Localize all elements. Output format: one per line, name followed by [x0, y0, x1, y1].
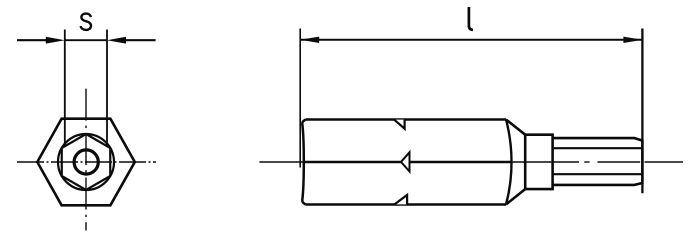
neck circle (tip shank) [74, 150, 98, 174]
body middle hex edge line [304, 161, 511, 163]
dimension s: left tail with arrow pointing right [17, 39, 48, 41]
collar [525, 135, 552, 189]
label l [469, 7, 473, 30]
tip outline [553, 138, 643, 185]
end view: vertical centerline [85, 89, 87, 231]
dimension l: right extension line (also tip end edge) [641, 29, 643, 194]
dimension l: left extension line [299, 29, 301, 168]
cone top slant [506, 120, 525, 135]
dimension s: right tail with arrow pointing left [124, 39, 156, 41]
body right end chamfer curves [506, 120, 512, 205]
dimension l: left arrowhead [300, 37, 319, 43]
dimension l: right arrowhead [623, 37, 642, 43]
outer hexagon (hex body end view) [37, 119, 135, 206]
dimension s: right extension line [106, 30, 108, 147]
body top outline [306, 118, 507, 121]
hexagon interruption mark: bottom flag [395, 195, 408, 204]
dimension s: line between extension lines [65, 39, 107, 41]
label s [81, 14, 91, 30]
tip lower hex line [553, 173, 642, 175]
end view: horizontal centerline [17, 161, 156, 163]
side view: centerline segments [259, 161, 308, 163]
dimension s: left extension line [64, 30, 66, 147]
hexagon interruption mark: middle open arrow [401, 152, 410, 171]
cone bottom slant [506, 189, 525, 204]
body left end (chamfered face) [302, 120, 305, 205]
tip upper hex line [553, 147, 642, 149]
hexagon interruption mark: top flag [394, 120, 405, 129]
dimension l: dimension line [300, 39, 642, 41]
body bottom outline [306, 203, 507, 206]
big circle (chamfer circle) [58, 134, 114, 190]
inner hexagon (hex tip, point-up) [62, 134, 111, 190]
